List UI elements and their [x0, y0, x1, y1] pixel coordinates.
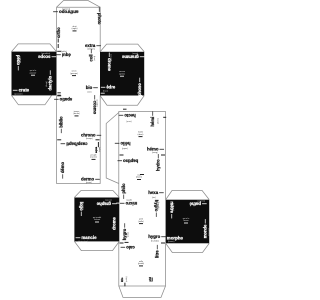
svg-text:(egal): (egal): [99, 147, 101, 152]
svg-text:(soleil): (soleil): [122, 147, 128, 149]
svg-text:(parole): (parole): [81, 203, 83, 210]
flap below black face A-right: [100, 96, 144, 106]
svg-text:bio —: bio —: [86, 85, 99, 90]
tick netB right fold1: [161, 154, 165, 156]
svg-text:(mesure): (mesure): [172, 203, 174, 211]
svg-text:hydro —: hydro —: [155, 153, 160, 171]
flap below black face A-left: [12, 95, 52, 104]
svg-text:(course): (course): [110, 54, 112, 62]
svg-text:monde —: monde —: [202, 218, 207, 238]
tick netA left fold3: [57, 139, 61, 141]
svg-text:(homme): (homme): [62, 7, 70, 9]
svg-text:(sang): (sang): [152, 152, 158, 154]
svg-text:drome: drome: [112, 217, 117, 230]
double tick near espalo: [57, 92, 60, 94]
svg-text:— graphe: — graphe: [96, 202, 116, 207]
svg-text:(regarder): (regarder): [41, 52, 50, 54]
tick netA right fold3: [96, 139, 100, 141]
svg-text:(humide): (humide): [157, 202, 159, 210]
tick netB R1 right edge: [163, 116, 166, 118]
svg-text:(forme): (forme): [168, 241, 175, 243]
svg-text:— mancie: — mancie: [76, 235, 97, 240]
flap above black face A-right: [100, 44, 144, 52]
flap above black face B-right: [166, 190, 210, 199]
black face A-left (die1): [12, 52, 57, 96]
tick near fold: [140, 174, 144, 176]
svg-text:(duree): (duree): [73, 113, 80, 115]
svg-text:l'avenir: l'avenir: [94, 219, 101, 221]
svg-text:forme: forme: [183, 220, 189, 222]
tick netB left fold1: [120, 154, 124, 156]
tick netA left fold1: [57, 50, 61, 52]
svg-text:(egal): (egal): [61, 50, 66, 52]
svg-text:(eau): (eau): [128, 232, 130, 237]
svg-text:— gramme: — gramme: [121, 55, 144, 60]
svg-text:hygro —: hygro —: [122, 223, 127, 241]
svg-text:calo —: calo —: [120, 245, 135, 250]
tick netB left fold3: [120, 242, 124, 244]
svg-text:— philo: — philo: [121, 183, 126, 199]
svg-text:(humide): (humide): [151, 240, 159, 242]
svg-text:(doigt): (doigt): [45, 81, 48, 87]
svg-text:kilo: kilo: [120, 277, 124, 282]
svg-text:hexa —: hexa —: [148, 190, 164, 195]
svg-text:(enfant): (enfant): [19, 56, 22, 63]
svg-text:phil: phil: [148, 277, 152, 282]
svg-text:(monde): (monde): [95, 100, 97, 108]
black face A-right (die1): [100, 52, 144, 96]
net B bottom glue flap: [119, 286, 166, 297]
svg-text:(demi): (demi): [158, 118, 160, 124]
svg-text:hémo —: hémo —: [147, 146, 165, 151]
svg-text:(racine): (racine): [90, 157, 97, 159]
white tick inside black3 right edge: [116, 202, 119, 204]
svg-text:(groupe): (groupe): [70, 73, 78, 75]
svg-text:ortho: ortho: [56, 27, 61, 38]
svg-text:micro —: micro —: [119, 201, 137, 206]
svg-text:(poids): (poids): [138, 263, 144, 265]
black face B-right (die2): [166, 200, 210, 244]
svg-text:(face): (face): [103, 91, 108, 93]
svg-text:(taille): (taille): [138, 220, 144, 223]
svg-text:(peau): (peau): [86, 182, 92, 184]
svg-text:dactylo —: dactylo —: [47, 70, 52, 91]
svg-text:litre —: litre —: [154, 244, 159, 258]
net B column outline: [119, 112, 166, 287]
svg-text:morphe: morphe: [167, 235, 184, 240]
net B left side flap: [106, 113, 119, 184]
net A top glue flap: [57, 1, 101, 8]
svg-text:(petit): (petit): [126, 198, 131, 201]
flap below black face B-left: [74, 241, 119, 250]
vertical fold ticks netA left edge above fold: [57, 39, 59, 43]
svg-text:(demi): (demi): [138, 134, 144, 136]
svg-text:(vie): (vie): [88, 91, 92, 93]
black face B-left (die2): [74, 198, 119, 242]
svg-text:coll —: coll —: [89, 48, 94, 61]
svg-text:spatio —: spatio —: [53, 97, 72, 102]
svg-text:equa: equa: [95, 146, 98, 153]
svg-text:(temps): (temps): [86, 137, 93, 140]
svg-text:hecto —: hecto —: [118, 113, 136, 118]
svg-text:chrono —: chrono —: [81, 132, 102, 137]
svg-text:(claire): (claire): [136, 177, 142, 179]
svg-text:hélio —: hélio —: [114, 141, 130, 146]
svg-text:dermo —: dermo —: [81, 176, 100, 181]
tick above hecto: [123, 108, 127, 110]
svg-text:(piste): (piste): [119, 72, 125, 75]
svg-text:— démo: — démo: [60, 162, 65, 179]
svg-text:casp/bapti —: casp/bapti —: [60, 142, 87, 147]
svg-text:— biblio: — biblio: [59, 116, 64, 133]
svg-text:(ecrire): (ecrire): [105, 198, 112, 200]
flap above black face A-left: [12, 44, 57, 52]
svg-text:(cou): (cou): [94, 56, 96, 61]
svg-text:(mesure): (mesure): [208, 228, 210, 236]
svg-text:phono —: phono —: [137, 77, 142, 96]
svg-text:(souffrir): (souffrir): [197, 199, 205, 201]
white tick bottom left black2: [101, 92, 105, 94]
svg-text:— scope: — scope: [37, 54, 56, 59]
flap below black face B-right: [166, 243, 210, 252]
flap above black face B-left: [74, 191, 119, 198]
svg-text:(lettre): (lettre): [132, 52, 138, 55]
tick netB right fold3: [161, 242, 165, 244]
svg-text:hygro —: hygro —: [148, 234, 166, 239]
svg-text:pouvoir: pouvoir: [30, 72, 37, 74]
svg-text:(divination): (divination): [78, 240, 88, 243]
svg-text:— èdre: — èdre: [101, 85, 116, 90]
svg-text:(regle): (regle): [72, 28, 78, 30]
svg-text:(mille): (mille): [126, 276, 128, 282]
svg-text:extra —: extra —: [85, 43, 101, 48]
svg-text:(cent): (cent): [126, 120, 131, 123]
svg-text:(pouvoir): (pouvoir): [15, 93, 23, 95]
svg-text:baptiso —: baptiso —: [117, 158, 138, 163]
tick netA left fold2: [57, 95, 61, 97]
svg-text:— photo: — photo: [97, 8, 102, 25]
svg-text:hémi —: hémi —: [150, 111, 155, 127]
net A column outline: [57, 7, 101, 183]
svg-text:— crate: — crate: [13, 87, 30, 92]
